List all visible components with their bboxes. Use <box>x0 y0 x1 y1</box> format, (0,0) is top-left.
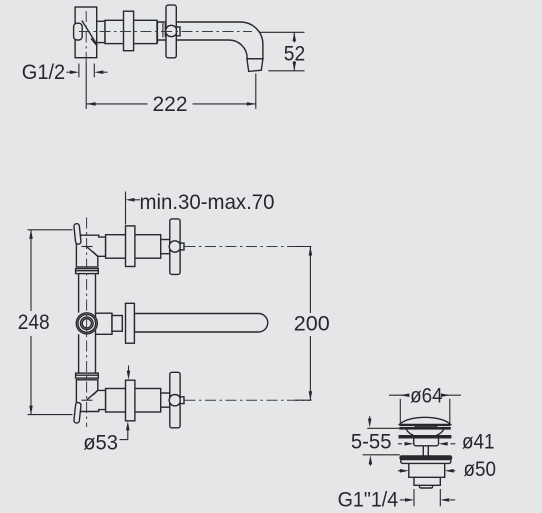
dimension 222: extension line at spout tip <box>255 74 257 109</box>
spout tee block <box>96 313 113 334</box>
spout escutcheon <box>126 303 135 343</box>
waste o41 body <box>414 438 439 446</box>
bottom handle neck <box>161 393 170 407</box>
svg-text:ø64: ø64 <box>410 384 443 407</box>
top elbow diagonal <box>87 247 98 256</box>
dimension 5-55: top tick and arrow <box>367 427 399 429</box>
aerator tip <box>247 59 263 72</box>
wire: vertical pipe left edge <box>78 274 80 313</box>
valve stem behind handle <box>162 23 164 37</box>
svg-text:222: 222 <box>153 93 188 116</box>
dimension G1/2: right arrow <box>103 71 108 73</box>
svg-text:min.30-max.70: min.30-max.70 <box>140 191 275 214</box>
dimension o53: bottom arrow and leader <box>126 421 130 430</box>
tee boss middle circle <box>81 317 94 330</box>
bottom hub cap <box>180 397 184 404</box>
dimension o53: top arrow <box>128 366 130 372</box>
svg-text:G1/2: G1/2 <box>22 61 65 84</box>
top valve elbow <box>76 235 105 267</box>
G1/2 inlet stub <box>74 23 83 40</box>
waste flange white band <box>401 460 451 464</box>
wire: dashed axis of top valve <box>185 246 310 248</box>
tee boss inner circle <box>82 319 91 328</box>
waste bottom tab <box>420 485 433 488</box>
top valve body <box>106 235 161 259</box>
dimension G1"1/4: arrows <box>400 499 406 501</box>
bottom elbow diagonal <box>87 390 98 399</box>
top valve escutcheon <box>126 226 135 267</box>
dimension o41: arrows <box>398 443 402 445</box>
waste skirt left curve <box>406 429 413 435</box>
top hub cap <box>180 243 184 250</box>
waste top washer bar <box>400 428 451 430</box>
dimension 200: line and arrows <box>309 247 311 314</box>
valve neck <box>97 21 105 42</box>
hub cap <box>176 27 180 36</box>
wall elbow body <box>75 7 97 58</box>
top cross handle <box>170 219 180 275</box>
dimension 52: vertical line and arrows <box>293 32 295 42</box>
svg-text:ø41: ø41 <box>462 430 495 453</box>
wire: vertical centerline through wall elbow <box>85 11 87 62</box>
top handle neck <box>161 240 170 254</box>
dimension 248: line and arrows <box>30 230 32 311</box>
dimension 52: ticks <box>259 31 305 33</box>
bottom pipe coupling collar <box>76 373 99 378</box>
top handle hub <box>169 241 180 252</box>
tee boss outer ring <box>76 313 97 334</box>
dimension o50: arrows <box>398 470 401 472</box>
bottom cross handle <box>170 372 180 428</box>
body knurled edge <box>156 21 158 43</box>
wire: bottom valve horizontal centerline segment <box>82 399 93 401</box>
valve body <box>105 20 157 43</box>
handle hub <box>166 25 177 36</box>
dimension 5-55: bottom tick and arrow <box>363 454 400 456</box>
dimension G1/2: left arrow <box>67 71 72 73</box>
svg-text:ø53: ø53 <box>83 431 118 454</box>
spout tube (plan) <box>134 314 267 333</box>
svg-text:248: 248 <box>18 311 50 334</box>
waste skirt right curve <box>437 429 444 435</box>
dimension o64: line and arrows <box>389 394 410 396</box>
top valve mounting lug <box>74 223 82 244</box>
bottom valve elbow <box>76 380 105 412</box>
top pipe coupling collar <box>76 269 99 274</box>
svg-text:G1"1/4: G1"1/4 <box>338 488 399 511</box>
dimension 222: line and arrows <box>87 103 148 105</box>
waste cap bottom edge <box>400 424 451 426</box>
bottom handle hub <box>169 395 180 406</box>
dimension 200: ticks <box>295 246 312 248</box>
cross handle (side) <box>166 5 176 58</box>
wire: dashed axis of bottom valve <box>185 399 310 401</box>
wire: horizontal centerline of faucet body <box>79 31 252 33</box>
dimension G1/2: extension lines <box>78 64 80 78</box>
wire: top valve horizontal centerline segment <box>82 246 93 248</box>
bottom valve escutcheon <box>126 380 135 421</box>
bottom valve mounting lug <box>74 402 82 423</box>
waste threaded tail <box>414 477 440 485</box>
dimension o64: extension lines <box>399 399 401 424</box>
waste middle bar <box>399 436 451 439</box>
waste cap under plate <box>415 426 436 427</box>
dimension min.30-max.70: extension line <box>125 192 127 225</box>
svg-text:52: 52 <box>284 42 305 65</box>
waste flange dark bar <box>400 456 452 460</box>
svg-text:200: 200 <box>294 313 330 336</box>
elbow internal diagonal <box>82 21 97 46</box>
svg-text:5-55: 5-55 <box>351 430 392 453</box>
wire: vertical pipe right edge <box>95 274 97 314</box>
dimension 248: ticks <box>28 229 73 231</box>
spout tube with curve (passes behind handle) <box>157 22 263 59</box>
dimension G1"1/4: extension lines <box>413 489 415 506</box>
escutcheon flange (side) <box>124 11 134 51</box>
spout neck <box>112 316 122 332</box>
waste cap dome <box>400 417 451 424</box>
svg-text:ø50: ø50 <box>464 458 497 481</box>
waste stem <box>422 446 424 456</box>
dimension min.30-max.70: arrow <box>134 199 140 201</box>
waste o50 body <box>409 463 445 477</box>
wire: main vertical centerline <box>86 218 88 428</box>
bottom valve body <box>106 389 161 413</box>
